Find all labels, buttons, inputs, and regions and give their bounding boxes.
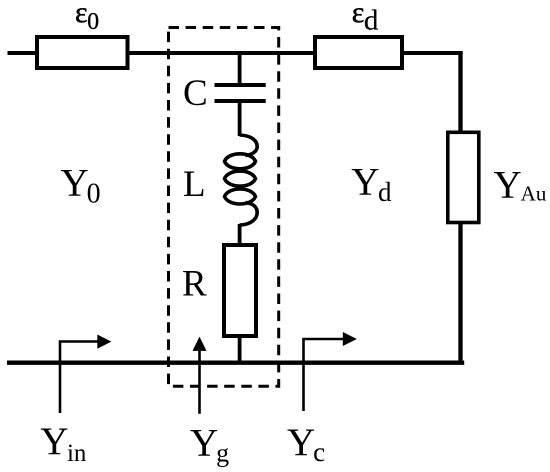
svg-text:L: L [183, 164, 206, 205]
wire inductor-to-resistor lead [238, 224, 242, 245]
arrow Y_in [60, 335, 111, 414]
box Y_Au (gold admittance) [448, 132, 479, 222]
svg-text:Yg: Yg [190, 422, 229, 468]
resistor R [224, 245, 256, 336]
wire capacitor-to-inductor lead [238, 103, 242, 136]
svg-text:Yd: Yd [351, 161, 392, 208]
svg-text:Yc: Yc [287, 421, 325, 467]
svg-text:Yin: Yin [40, 420, 87, 467]
wire resistor bottom lead [238, 336, 242, 364]
capacitor C [215, 85, 266, 101]
wire right vertical [458, 51, 462, 364]
box epsilon_0 (line section) [37, 37, 128, 68]
svg-text:ε0: ε0 [75, 0, 99, 35]
arrow Y_g [193, 337, 207, 414]
wire capacitor top lead [238, 53, 242, 83]
svg-text:Y0: Y0 [61, 162, 101, 210]
svg-text:YAu: YAu [494, 164, 547, 207]
arrow Y_c [304, 332, 357, 411]
wire bottom horizontal [7, 361, 464, 365]
svg-text:εd: εd [352, 0, 379, 36]
dashed shunt-branch outline box [169, 28, 279, 387]
wire top horizontal [8, 51, 463, 55]
box epsilon_d (line section) [315, 37, 402, 68]
svg-text:R: R [182, 263, 207, 304]
inductor L [225, 135, 258, 225]
svg-text:C: C [183, 73, 208, 114]
